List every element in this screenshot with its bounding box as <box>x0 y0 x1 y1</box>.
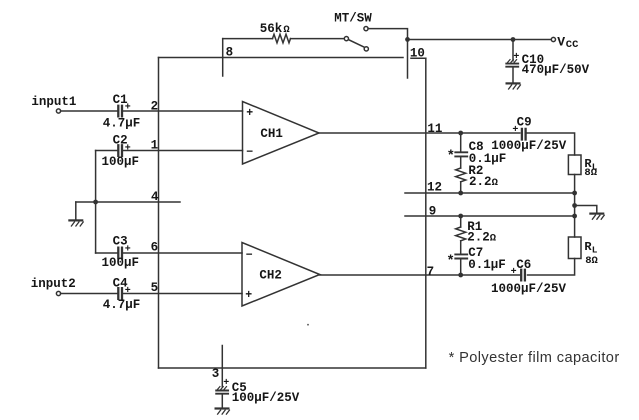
capacitor C3 plates <box>118 248 122 259</box>
wire C7 to pin7 <box>460 260 462 275</box>
resistor R2 zigzag <box>456 168 466 182</box>
svg-text:C6: C6 <box>516 258 531 272</box>
svg-text:1000µF/25V: 1000µF/25V <box>491 282 567 296</box>
svg-text:Ω: Ω <box>490 232 497 244</box>
capacitor C7 asterisk <box>446 253 454 269</box>
switch throw circle <box>364 47 368 51</box>
ground below C10 <box>507 83 521 89</box>
capacitor C3 value <box>102 256 140 270</box>
op-amp CH1 minus sign <box>246 146 253 159</box>
capacitor C9 plates <box>522 129 526 140</box>
svg-text:*: * <box>447 148 455 164</box>
junction pin9 / R1 <box>458 214 463 219</box>
svg-text:4.7µF: 4.7µF <box>103 298 141 312</box>
capacitor C1 value <box>103 117 141 131</box>
capacitor C10 polarity plus <box>513 52 519 63</box>
capacitor C4 plates <box>118 288 122 299</box>
svg-text:8Ω: 8Ω <box>584 167 597 179</box>
wire R1 top lead <box>460 216 462 227</box>
switch MT/SW label <box>334 12 372 26</box>
vertical wire C2/C3 bus <box>95 151 97 254</box>
svg-text:+: + <box>125 103 131 114</box>
capacitor C4 polarity plus <box>125 286 131 297</box>
capacitor C5 label <box>232 381 247 395</box>
wire input1 to C1 <box>61 110 117 112</box>
svg-text:100µF: 100µF <box>102 155 140 169</box>
resistor R2 label <box>468 164 483 178</box>
capacitor C6 plates <box>521 270 525 281</box>
capacitor C5 polarity plus <box>223 378 229 389</box>
IC outline U1 right edge <box>425 58 427 368</box>
svg-text:1000µF/25V: 1000µF/25V <box>491 139 567 153</box>
capacitor C4 value <box>103 298 141 312</box>
capacitor C6 value <box>491 282 567 296</box>
pin 4 label <box>151 190 159 204</box>
op-amp CH2 minus sign <box>246 249 253 262</box>
svg-text:CC: CC <box>566 39 579 51</box>
capacitor C10 plates <box>506 60 518 67</box>
resistor R1 label <box>467 220 482 234</box>
svg-text:+: + <box>223 378 229 389</box>
svg-text:+: + <box>511 267 517 278</box>
capacitor C5 bottom lead <box>221 395 223 408</box>
pin 12 wire <box>405 192 575 194</box>
stray mark <box>307 324 309 326</box>
pin 3 stub <box>221 346 223 388</box>
svg-text:V: V <box>557 35 565 50</box>
svg-text:100µF: 100µF <box>102 256 140 270</box>
capacitor C4 label <box>113 277 129 291</box>
svg-text:0.1µF: 0.1µF <box>468 258 506 272</box>
capacitor C8 plates <box>455 152 467 156</box>
junction pin10/rail <box>405 37 410 42</box>
pin 10 label <box>410 47 425 61</box>
switch MT/SW pole circle <box>344 37 348 41</box>
pin 9 label <box>429 205 437 219</box>
junction RL/pin12 <box>572 191 577 196</box>
capacitor C10 bottom lead <box>512 68 514 83</box>
wire bus to C3 <box>96 252 117 254</box>
wire C4 to CH2 plus input (pin 5) <box>124 293 243 295</box>
resistor R2 value <box>469 175 499 189</box>
capacitor C8 value <box>469 152 507 166</box>
ground tap wire right <box>575 206 597 213</box>
wire R2 to pin12 <box>460 182 462 193</box>
junction RL/ground <box>572 203 577 208</box>
wire C1 to CH1 plus input (pin 2) <box>124 110 243 112</box>
svg-text:+: + <box>125 143 131 154</box>
Vcc rail wire <box>408 39 552 41</box>
svg-text:2.2: 2.2 <box>469 175 492 189</box>
capacitor C9 polarity plus <box>512 125 518 136</box>
capacitor C5 plates <box>216 387 228 394</box>
svg-text:input2: input2 <box>31 277 76 291</box>
ground stub left <box>75 202 77 219</box>
capacitor C7 value <box>468 258 506 272</box>
Vcc label <box>557 35 579 52</box>
svg-text:7: 7 <box>427 265 435 279</box>
svg-text:+: + <box>245 289 252 302</box>
svg-text:*: * <box>446 253 454 269</box>
resistor 56k zigzag <box>273 34 291 43</box>
svg-text:8: 8 <box>226 45 234 59</box>
capacitor C2 label <box>113 134 128 148</box>
wire MT/SW terminal to Vcc rail <box>368 29 407 40</box>
svg-text:2.2: 2.2 <box>467 230 490 244</box>
svg-text:11: 11 <box>427 122 442 136</box>
svg-text:8Ω: 8Ω <box>585 255 598 267</box>
IC outline U1 left edge <box>158 58 160 369</box>
capacitor C6 label <box>516 258 531 272</box>
svg-text:+: + <box>246 107 253 120</box>
svg-text:−: − <box>246 249 253 262</box>
wire RL1 to RL2 <box>574 175 576 238</box>
capacitor C9 value <box>491 139 567 153</box>
op-amp CH1 plus sign <box>246 107 253 120</box>
wire C8 top lead <box>460 133 462 151</box>
pin 5 label <box>151 281 159 295</box>
note: polyester film capacitor <box>449 350 620 366</box>
IC outline U1 top edge <box>159 57 426 60</box>
svg-text:4.7µF: 4.7µF <box>103 117 141 131</box>
svg-text:−: − <box>246 146 253 159</box>
pin 4 wire <box>76 201 180 203</box>
svg-text:9: 9 <box>429 205 437 219</box>
op-amp CH2 triangle <box>242 243 320 307</box>
wire resistor to switch <box>291 38 345 40</box>
capacitor C10 top lead <box>512 40 514 61</box>
wire C3 to CH2 minus input (pin 6) <box>124 252 243 254</box>
capacitor C2 polarity plus <box>125 143 131 154</box>
svg-text:+: + <box>125 286 131 297</box>
resistor R1 zigzag <box>456 227 466 241</box>
capacitor C1 plates <box>118 106 122 117</box>
svg-text:MT/SW: MT/SW <box>334 12 372 26</box>
pin 7 label <box>427 265 435 279</box>
ground right <box>590 214 604 220</box>
pin 8 stub <box>222 39 224 76</box>
IC outline U1 bottom edge <box>159 367 426 369</box>
input1 terminal circle <box>56 109 60 113</box>
svg-text:input1: input1 <box>31 95 76 109</box>
capacitor C10 label <box>522 53 545 67</box>
svg-text:100µF/25V: 100µF/25V <box>232 391 300 405</box>
capacitor C7 label <box>468 246 483 260</box>
capacitor C8 asterisk <box>447 148 455 164</box>
svg-text:5: 5 <box>151 281 159 295</box>
svg-text:CH2: CH2 <box>259 268 282 282</box>
wire CH1 output to C9 (pin 11) <box>319 132 520 134</box>
svg-text:Ω: Ω <box>283 24 290 36</box>
ground left <box>69 220 83 226</box>
svg-text:* Polyester film capacitor: * Polyester film capacitor <box>449 350 620 366</box>
svg-text:L: L <box>592 244 598 255</box>
svg-text:Ω: Ω <box>492 177 499 189</box>
wire pin8 to resistor <box>223 38 273 40</box>
resistor RL1 box <box>568 155 581 175</box>
svg-text:CH1: CH1 <box>260 127 283 141</box>
capacitor C2 value <box>102 155 140 169</box>
junction output2 / C7 <box>458 273 463 278</box>
resistor RL2 value <box>585 255 598 267</box>
pin 6 label <box>151 241 159 255</box>
junction bus/pin4 <box>93 200 98 205</box>
ground below C5 <box>216 409 230 415</box>
wire C2 to CH1 minus input (pin 1) <box>124 150 243 152</box>
op-amp CH2 label <box>259 268 282 282</box>
pin 1 label <box>151 139 159 153</box>
pin 8 label <box>226 45 234 59</box>
pin 10 stub <box>407 39 409 78</box>
wire input2 to C4 <box>61 293 117 295</box>
capacitor C5 value <box>232 391 300 405</box>
capacitor C7 plates <box>455 254 467 258</box>
svg-text:3: 3 <box>212 367 220 381</box>
op-amp CH1 triangle <box>243 102 320 165</box>
wire corner to C2 <box>96 150 117 152</box>
op-amp CH1 label <box>260 127 283 141</box>
svg-text:4: 4 <box>151 190 159 204</box>
op-amp CH2 plus sign <box>245 289 252 302</box>
pin 2 label <box>151 100 159 114</box>
wire C8 to R2 <box>460 157 462 168</box>
capacitor C10 value <box>522 63 590 77</box>
svg-text:56k: 56k <box>260 22 283 36</box>
pin 3 label <box>212 367 220 381</box>
resistor RL2 label <box>584 240 597 256</box>
junction C10/rail <box>511 37 516 42</box>
capacitor C1 polarity plus <box>125 103 131 114</box>
resistor RL2 box <box>568 237 581 259</box>
switch MT/SW terminal circle <box>364 27 368 31</box>
resistor RL1 value <box>584 167 597 179</box>
junction output1 / C8 <box>458 131 463 136</box>
wire R1 to C7 <box>460 241 462 254</box>
wire C6 to CH2 output (pin 7) <box>320 274 520 276</box>
pin 11 label <box>427 122 442 136</box>
capacitor C8 label <box>469 140 484 154</box>
svg-text:6: 6 <box>151 241 159 255</box>
junction pin12 / R2 <box>458 191 463 196</box>
svg-text:+: + <box>512 125 518 136</box>
svg-text:C9: C9 <box>517 115 532 129</box>
switch lever <box>348 40 364 48</box>
pin 12 label <box>427 181 442 195</box>
svg-text:1: 1 <box>151 139 159 153</box>
svg-text:+: + <box>513 52 519 63</box>
svg-text:470µF/50V: 470µF/50V <box>522 63 590 77</box>
resistor 56k value label <box>260 22 291 36</box>
capacitor C3 label <box>113 235 128 249</box>
capacitor C1 label <box>113 93 128 107</box>
capacitor C6 polarity plus <box>511 267 517 278</box>
capacitor C2 plates <box>118 145 122 156</box>
svg-text:2: 2 <box>151 100 159 114</box>
pin 9 wire <box>405 215 575 217</box>
svg-text:12: 12 <box>427 181 442 195</box>
resistor RL1 label <box>584 157 597 173</box>
Vcc terminal circle <box>551 37 555 41</box>
svg-text:10: 10 <box>410 47 425 61</box>
wire RL2 to C6 <box>528 259 575 276</box>
capacitor C9 label <box>517 115 532 129</box>
wire C9 to RL1 <box>527 133 575 155</box>
resistor R1 value <box>467 230 497 244</box>
capacitor C3 polarity plus <box>125 244 131 255</box>
input1 label <box>31 95 76 109</box>
junction RL/pin9 <box>572 214 577 219</box>
input2 terminal circle <box>56 291 60 295</box>
input2 label <box>31 277 76 291</box>
